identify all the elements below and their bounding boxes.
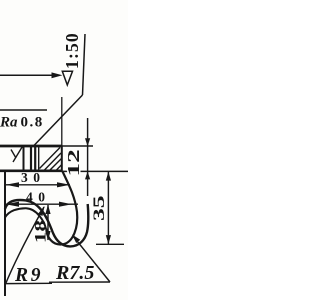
dim 18 line	[47, 205, 49, 240]
extension line vertical x62	[61, 97, 63, 146]
dim 35 line	[107, 172, 109, 244]
inner left curve	[5, 208, 46, 229]
pad bottom extension to right	[62, 170, 128, 172]
part sloped right edge with inner curl	[46, 171, 77, 244]
svg-text:30: 30	[21, 170, 46, 185]
part left edge	[4, 171, 6, 296]
svg-text:0.8: 0.8	[21, 114, 44, 130]
dim 30 line	[5, 184, 70, 186]
hatching	[11, 146, 62, 171]
slope leader diagonal	[34, 95, 83, 146]
slope leader vertical	[83, 34, 86, 95]
svg-text:Ra: Ra	[0, 114, 18, 130]
wire slope leader arrow horizontal	[0, 74, 53, 76]
R7.5 shelf	[49, 281, 110, 283]
pad top extension	[62, 145, 93, 147]
35 bottom extension	[96, 243, 124, 245]
pad right edge	[61, 146, 63, 171]
roughness bar	[0, 109, 47, 111]
dim 12 line	[87, 118, 89, 196]
hatch bars	[23, 146, 25, 171]
svg-text:40: 40	[26, 190, 51, 205]
svg-text:35: 35	[90, 195, 108, 221]
slope symbol triangle	[62, 71, 72, 85]
svg-text:R9: R9	[14, 265, 43, 286]
pad top edge	[0, 145, 63, 148]
leader R9	[6, 207, 45, 284]
svg-text:12: 12	[64, 149, 83, 176]
leader R7.5	[73, 236, 110, 282]
pad bottom edge	[0, 170, 63, 173]
outer curve of hook	[5, 200, 88, 246]
dim 40 line	[5, 203, 78, 205]
svg-text:1:50: 1:50	[62, 32, 82, 69]
R9 shelf	[6, 282, 53, 284]
svg-text:R7.5: R7.5	[55, 262, 94, 284]
